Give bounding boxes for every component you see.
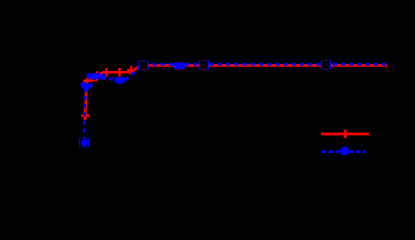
- legend blue star marker: [340, 147, 349, 156]
- blue open square marker M2 at (203.9,64.9): [199, 60, 208, 69]
- blue open square marker M1 at (143.4,65.2), black face occludes lines: [139, 61, 148, 70]
- blue curve (series 2, dashed): [84, 64, 387, 141]
- red plus markers: [81, 66, 136, 120]
- legend blue sample line (dashed): [322, 150, 366, 153]
- blue open square marker M3 at (325.9,64.9): [321, 60, 330, 69]
- red curve (series 1, solid): [85, 65, 387, 120]
- legend red plus marker: [341, 130, 350, 138]
- blue open square marker M0 at curve bottom (84,142.6): [79, 138, 88, 147]
- red plus marker tick tips under blue markers on flat line: [176, 62, 183, 71]
- legend red sample line: [321, 133, 369, 136]
- blue star markers: [80, 62, 186, 146]
